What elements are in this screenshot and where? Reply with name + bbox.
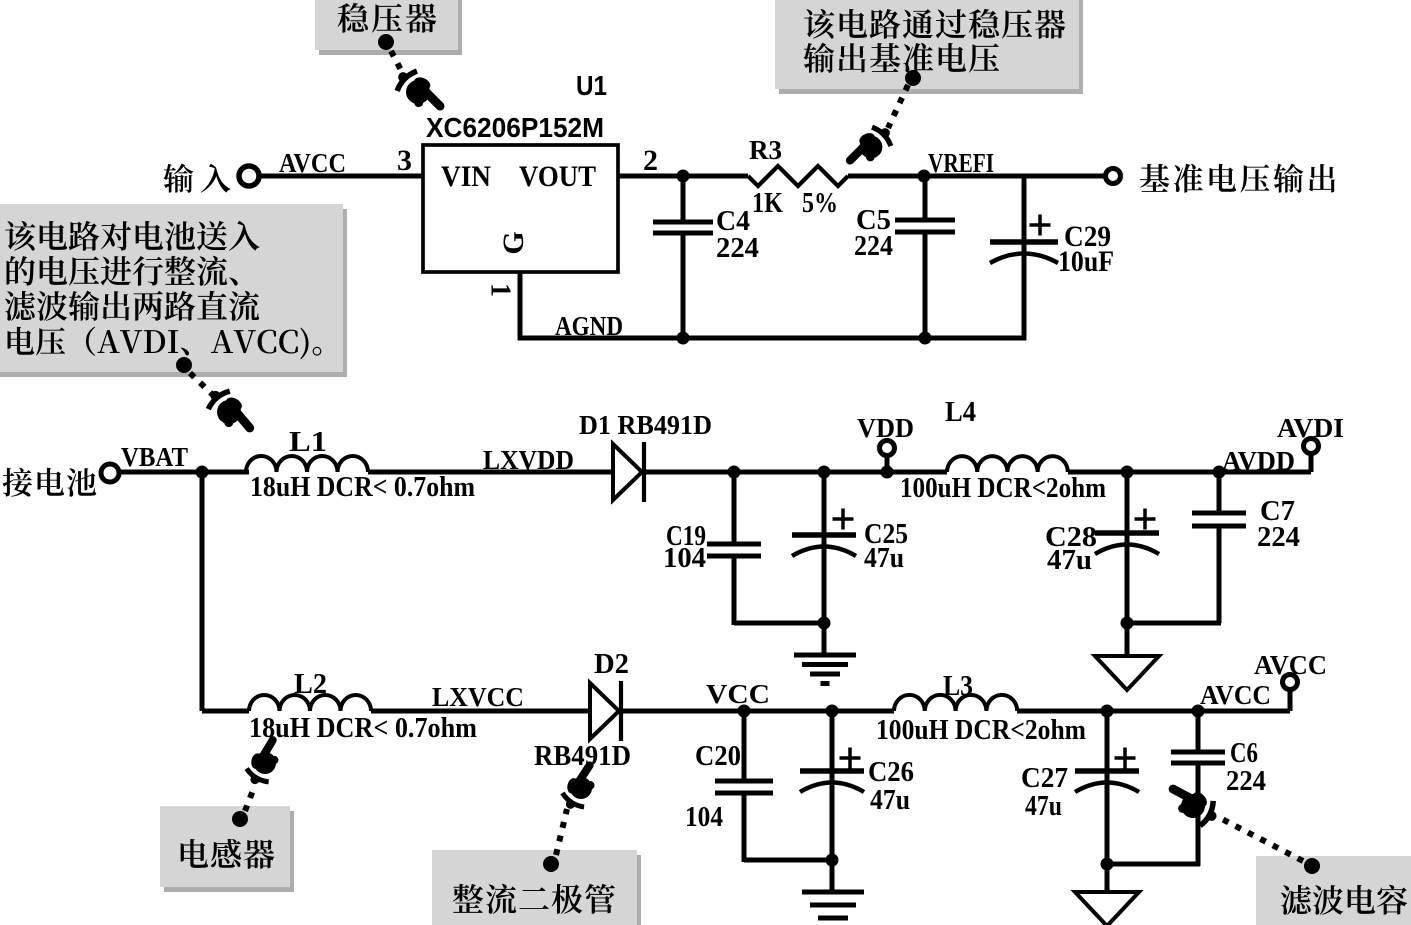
svg-text:104: 104 bbox=[685, 801, 723, 833]
terminal 输入 (input) bbox=[239, 166, 259, 186]
callout hand (该电路通过稳压器) bbox=[839, 118, 897, 176]
junction C28 ground bbox=[1121, 617, 1134, 630]
svg-text:VBAT: VBAT bbox=[121, 442, 188, 472]
diode D1 RB491D bbox=[613, 444, 642, 500]
callout hand (滤波电容) bbox=[1160, 777, 1224, 831]
callout leader (电感器) bbox=[245, 785, 255, 811]
wire C20 bottom to C26 bbox=[744, 858, 832, 863]
svg-text:2: 2 bbox=[643, 144, 658, 177]
svg-text:D2: D2 bbox=[594, 649, 629, 680]
svg-text:AVDI: AVDI bbox=[1277, 413, 1344, 443]
svg-text:18uH DCR< 0.7ohm: 18uH DCR< 0.7ohm bbox=[250, 472, 475, 503]
wire C7 bottom to C28 bbox=[1127, 621, 1221, 626]
svg-text:D1 RB491D: D1 RB491D bbox=[579, 410, 712, 440]
capacitor C27 (electrolytic) bbox=[1105, 711, 1110, 894]
svg-text:L3: L3 bbox=[943, 671, 973, 702]
callout box: 整流二极管 bbox=[436, 855, 641, 925]
capacitor C7 bbox=[1217, 472, 1222, 513]
terminal 基准电压输出 (reference voltage output) bbox=[1106, 169, 1121, 184]
wire R3 to output terminal bbox=[848, 174, 1105, 179]
junction node C4/VOUT bbox=[677, 170, 690, 183]
junction C25 bbox=[818, 466, 831, 479]
junction C27 ground bbox=[1101, 858, 1114, 871]
callout leader (稳压器) bbox=[391, 51, 403, 74]
op-amp U1 regulator box bbox=[423, 145, 618, 272]
callout box: 该电路对电池送入... bbox=[0, 209, 347, 377]
capacitor C28 (electrolytic) bbox=[1125, 472, 1130, 658]
svg-text:47u: 47u bbox=[1025, 790, 1062, 822]
wire VBAT to L1 bbox=[119, 470, 249, 475]
inductor L3 bbox=[894, 695, 1017, 711]
wire L2 to D2 bbox=[371, 709, 590, 714]
capacitor C25 (electrolytic) bbox=[822, 472, 827, 657]
svg-text:100uH DCR<2ohm: 100uH DCR<2ohm bbox=[900, 473, 1106, 504]
svg-text:VCC: VCC bbox=[706, 679, 770, 709]
diode D2 RB491D bbox=[590, 683, 619, 739]
wire VBAT rail to L2 bbox=[202, 709, 249, 714]
U1 pin 1 stub bbox=[518, 272, 523, 340]
ground (triangle) below C27 bbox=[1075, 892, 1139, 925]
inductor L1 bbox=[246, 456, 368, 472]
wire D2 to VCC node bbox=[621, 709, 894, 714]
svg-text:XC6206P152M: XC6206P152M bbox=[426, 112, 604, 143]
capacitor C4 bbox=[681, 176, 686, 222]
ground (earth) below C26 bbox=[802, 890, 864, 895]
inductor L2 bbox=[249, 695, 371, 711]
callout box: 滤波电容 bbox=[1260, 861, 1411, 925]
callout hand (整流二极管) bbox=[555, 756, 607, 815]
wire C19 bottom to C25 bbox=[734, 621, 824, 626]
junction VBAT branch bbox=[196, 466, 209, 479]
junction C26 bbox=[826, 705, 839, 718]
svg-text:224: 224 bbox=[854, 230, 893, 262]
capacitor C20 bbox=[742, 711, 747, 781]
junction node VREFI bbox=[918, 170, 931, 183]
capacitor C6 bbox=[1196, 711, 1201, 752]
capacitor C29 (electrolytic) bbox=[1022, 176, 1027, 340]
svg-text:R3: R3 bbox=[749, 135, 782, 165]
svg-text:C20: C20 bbox=[695, 740, 741, 772]
junction C27 bbox=[1101, 705, 1114, 718]
wire L3 to AVCC bbox=[1017, 709, 1290, 714]
svg-text:104: 104 bbox=[663, 542, 706, 574]
callout hand (电感器) bbox=[239, 731, 290, 790]
ground (triangle) below C28 bbox=[1095, 656, 1159, 690]
svg-text:VREFI: VREFI bbox=[928, 148, 994, 178]
svg-text:VOUT: VOUT bbox=[519, 160, 596, 193]
callout leader (滤波电容) bbox=[1220, 818, 1303, 861]
callout box: 稳压器 bbox=[319, 0, 462, 55]
svg-text:VIN: VIN bbox=[441, 160, 491, 193]
wire L1 to D1 bbox=[368, 470, 613, 475]
svg-text:100uH DCR<2ohm: 100uH DCR<2ohm bbox=[876, 715, 1086, 746]
svg-text:AVCC: AVCC bbox=[1200, 680, 1271, 710]
svg-text:10uF: 10uF bbox=[1058, 245, 1114, 278]
callout pointer dot (该电路通过稳压器) bbox=[905, 70, 921, 86]
wire AGND rail bbox=[518, 336, 1026, 341]
junction C19 bbox=[728, 466, 741, 479]
svg-text:RB491D: RB491D bbox=[534, 741, 631, 772]
capacitor C19 bbox=[732, 472, 737, 544]
junction C4/AGND bbox=[677, 332, 690, 345]
node 接电池 label bbox=[3, 468, 97, 497]
svg-text:18uH DCR< 0.7ohm: 18uH DCR< 0.7ohm bbox=[249, 713, 477, 744]
svg-text:G: G bbox=[497, 231, 530, 254]
node 基准电压输出 label bbox=[1140, 164, 1335, 193]
svg-text:47u: 47u bbox=[870, 784, 910, 816]
callout pointer dot (电感器) bbox=[232, 811, 248, 827]
callout pointer dot (该电路对电池) bbox=[176, 357, 192, 373]
svg-text:1K: 1K bbox=[752, 188, 783, 219]
terminal VDD bbox=[880, 441, 895, 456]
svg-text:1: 1 bbox=[485, 283, 516, 297]
svg-text:AVDD: AVDD bbox=[1222, 446, 1295, 476]
svg-text:47u: 47u bbox=[864, 542, 904, 574]
junction VCC bbox=[738, 705, 751, 718]
svg-text:224: 224 bbox=[1257, 521, 1300, 553]
wire L4 to AVDD bbox=[1068, 470, 1311, 475]
svg-text:224: 224 bbox=[1226, 765, 1266, 797]
junction C28 bbox=[1121, 466, 1134, 479]
terminal AVDI bbox=[1304, 439, 1319, 454]
svg-text:LXVDD: LXVDD bbox=[483, 445, 574, 475]
callout hand (稳压器) bbox=[390, 62, 452, 124]
capacitor C5 bbox=[923, 176, 928, 220]
svg-text:5%: 5% bbox=[802, 188, 838, 219]
terminal VBAT (battery) bbox=[101, 464, 119, 482]
callout hand (该电路对电池) bbox=[202, 381, 262, 444]
callout box: 电感器 bbox=[164, 811, 294, 892]
svg-text:U1: U1 bbox=[576, 70, 607, 101]
wire up to AVDI terminal bbox=[1309, 453, 1314, 472]
svg-text:224: 224 bbox=[716, 232, 759, 264]
junction AVDD bbox=[1213, 466, 1226, 479]
svg-text:L1: L1 bbox=[289, 427, 327, 458]
callout leader (该电路对电池) bbox=[190, 373, 214, 396]
svg-text:AVCC: AVCC bbox=[1254, 650, 1327, 680]
callout leader (整流二极管) bbox=[556, 809, 567, 855]
wire VBAT down to LXVCC rail bbox=[200, 472, 205, 711]
inductor L4 bbox=[947, 456, 1068, 472]
wire up to AVCC terminal bbox=[1288, 689, 1293, 711]
wire input to U1 pin3 bbox=[261, 174, 423, 179]
callout pointer dot (稳压器) bbox=[378, 34, 394, 50]
svg-text:47u: 47u bbox=[1047, 544, 1092, 576]
svg-text:L4: L4 bbox=[945, 397, 976, 428]
capacitor C26 (electrolytic) bbox=[830, 711, 835, 894]
ground (earth) below C25 bbox=[794, 653, 856, 658]
callout pointer dot (整流二极管) bbox=[543, 856, 559, 872]
junction VDD terminal bbox=[881, 466, 894, 479]
junction C26 ground bbox=[826, 854, 839, 867]
resistor R3 bbox=[748, 166, 848, 186]
wire D1 to VDD node bbox=[644, 470, 947, 475]
svg-text:3: 3 bbox=[397, 144, 412, 177]
svg-text:VDD: VDD bbox=[857, 413, 914, 443]
svg-text:L2: L2 bbox=[294, 669, 327, 700]
callout pointer dot (滤波电容) bbox=[1304, 858, 1320, 874]
callout leader (该电路通过稳压器) bbox=[888, 85, 908, 128]
junction C25 ground bbox=[818, 617, 831, 630]
terminal AVCC bbox=[1283, 675, 1298, 690]
node 输入 label bbox=[163, 164, 230, 193]
svg-text:LXVCC: LXVCC bbox=[432, 682, 524, 712]
wire C6 bottom to C27 bbox=[1107, 862, 1200, 867]
callout box: 该电路通过稳压器输出基准电压 bbox=[779, 0, 1083, 94]
junction C5/AGND bbox=[919, 332, 932, 345]
junction C6/AVCC bbox=[1192, 705, 1205, 718]
wire U1 VOUT to R3 bbox=[618, 174, 748, 179]
